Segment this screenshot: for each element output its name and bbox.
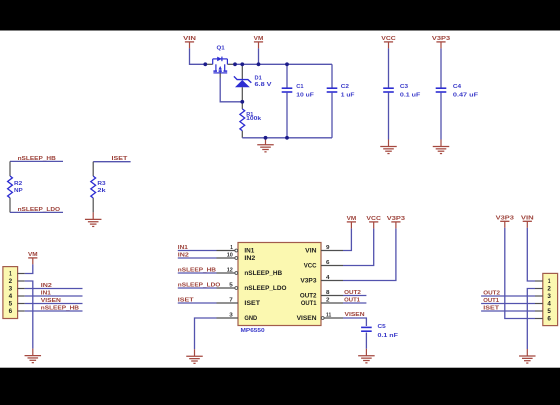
J1 pin 1 stub	[9, 271, 25, 278]
capacitor C1 body	[282, 84, 315, 99]
svg-text:OUT2: OUT2	[300, 293, 317, 300]
svg-text:VM: VM	[254, 36, 264, 42]
pin 5 nSLEEP_LDO (left)	[217, 283, 287, 293]
wire VM stub to rail	[258, 48, 260, 64]
wire nSLEEP_HB (R2)	[10, 160, 63, 162]
power port VM (left connector)	[28, 252, 38, 264]
transistor Q1 (P-MOSFET reverse protection)	[205, 45, 235, 77]
junction	[240, 62, 244, 66]
pin 11 VISEN (right)	[297, 313, 343, 323]
wire VCC to C3	[388, 48, 390, 87]
capacitor C2 body	[327, 84, 355, 99]
pin 2 OUT1 (right)	[301, 298, 343, 308]
wire Q1 gate to D1 node	[220, 78, 242, 102]
top rail wire	[235, 63, 332, 65]
connector J2 (right 6-pin header)	[543, 273, 558, 325]
wire C5 to ground	[365, 333, 367, 349]
ground (C5)	[358, 349, 375, 363]
pin 6 VCC (right)	[304, 260, 343, 270]
ground (J1)	[25, 349, 42, 363]
svg-text:2k: 2k	[97, 188, 106, 194]
ground (R3)	[85, 212, 102, 226]
J1 pin 2 stub	[9, 278, 25, 285]
resistor R3 2k	[91, 162, 107, 213]
capacitor C4 0.47uF	[436, 84, 479, 99]
wire C4 to ground	[440, 93, 442, 140]
svg-text:C1: C1	[296, 84, 304, 90]
pin 9 VIN (right)	[305, 245, 343, 255]
junction	[240, 100, 244, 104]
svg-text:VIN: VIN	[183, 36, 196, 42]
svg-text:nSLEEP_HB: nSLEEP_HB	[244, 270, 282, 277]
J2 pin 2 stub	[535, 286, 552, 293]
junction	[203, 62, 207, 66]
pin 12 nSLEEP_HB (left)	[217, 268, 283, 278]
svg-text:V3P3: V3P3	[496, 215, 515, 221]
J1 pin 4 stub	[9, 293, 25, 300]
wire ISET (R3)	[93, 161, 130, 163]
svg-text:R3: R3	[97, 181, 106, 187]
svg-text:12: 12	[227, 268, 234, 274]
svg-text:VIN: VIN	[305, 248, 316, 255]
svg-text:MP6550: MP6550	[241, 328, 266, 334]
junction	[285, 62, 289, 66]
svg-text:11: 11	[326, 313, 332, 319]
wire VCC pin to VCC	[343, 228, 374, 265]
wire VM to J1 pin1	[25, 264, 33, 273]
wire V3P3 to C4	[440, 48, 442, 87]
svg-text:VCC: VCC	[366, 216, 381, 222]
ground (J2)	[519, 349, 536, 363]
junction	[257, 62, 261, 66]
ground (C3)	[380, 140, 397, 154]
power port VCC (top)	[381, 36, 396, 48]
svg-text:V3P3: V3P3	[387, 216, 406, 222]
J1 pin 6 stub	[9, 308, 25, 315]
wire V3P3 pin to V3P3	[343, 228, 396, 280]
pin 10 IN2 (left)	[217, 253, 257, 263]
capacitor C1 10uF	[286, 64, 288, 87]
power port VIN	[183, 36, 196, 48]
wire GND pin to ground	[195, 318, 217, 349]
pin 7 ISET (left)	[217, 298, 261, 308]
ground (main rail)	[257, 138, 274, 152]
svg-text:C3: C3	[400, 84, 409, 90]
pin 8 OUT2 (right)	[300, 290, 343, 300]
svg-text:IN1: IN1	[244, 248, 255, 255]
svg-text:Q1: Q1	[217, 45, 226, 51]
junction	[233, 62, 237, 66]
wire VIN to J2 pin1	[527, 228, 535, 281]
svg-text:VCC: VCC	[381, 36, 396, 42]
J2 pin 6 stub	[535, 316, 552, 323]
svg-text:NP: NP	[14, 188, 23, 194]
power port VM (above IC)	[347, 216, 357, 228]
capacitor C5 0.1nF	[361, 324, 398, 339]
ground (IC GND)	[186, 349, 203, 363]
wire nSLEEP_LDO (R2)	[10, 211, 63, 213]
pin 4 V3P3 (right)	[300, 275, 343, 285]
wire J2 pin2 to ground	[527, 289, 535, 350]
svg-text:VM: VM	[347, 216, 357, 222]
svg-text:0.1 uF: 0.1 uF	[400, 93, 421, 99]
svg-text:nSLEEP_LDO: nSLEEP_LDO	[244, 285, 286, 292]
wire VISEN to C5	[343, 318, 366, 326]
svg-text:VM: VM	[28, 252, 38, 258]
svg-text:C5: C5	[378, 324, 387, 330]
wire V3P3 to J2 pin6	[505, 228, 535, 319]
J1 pin 3 stub	[9, 286, 25, 293]
svg-text:VCC: VCC	[304, 263, 317, 270]
svg-text:IN2: IN2	[244, 255, 256, 262]
resistor R2 NP	[8, 161, 23, 212]
wire J1 pin2 to ground	[25, 281, 33, 349]
svg-text:0.1 nF: 0.1 nF	[378, 333, 399, 339]
power port VCC (above IC)	[366, 216, 381, 228]
resistor R1 100k	[240, 102, 262, 138]
svg-text:R2: R2	[14, 181, 23, 187]
svg-text:V3P3: V3P3	[432, 36, 451, 42]
J2 pin 3 stub	[535, 293, 552, 300]
svg-text:V3P3: V3P3	[300, 278, 317, 285]
svg-text:C4: C4	[453, 84, 462, 90]
wire VIN pin to VM	[343, 228, 351, 250]
svg-text:D1: D1	[255, 76, 263, 82]
power port V3P3 (above IC)	[387, 216, 406, 228]
ground (C4)	[433, 140, 450, 154]
power port V3P3 (top)	[432, 36, 451, 48]
junction	[285, 136, 289, 140]
diode D1 zener 6.8V	[234, 64, 272, 102]
power port V3P3 (right)	[496, 215, 515, 227]
svg-text:C2: C2	[341, 84, 350, 90]
svg-text:VIN: VIN	[521, 215, 534, 221]
svg-text:GND: GND	[244, 315, 257, 322]
svg-text:10 uF: 10 uF	[296, 93, 314, 99]
svg-text:ISET: ISET	[244, 300, 260, 307]
svg-text:1 uF: 1 uF	[341, 93, 355, 99]
J2 pin 4 stub	[535, 301, 552, 308]
svg-text:VISEN: VISEN	[297, 315, 317, 322]
wire C3 to ground	[388, 93, 390, 140]
svg-text:100k: 100k	[246, 116, 262, 122]
svg-text:10: 10	[227, 253, 234, 259]
svg-text:OUT1: OUT1	[301, 300, 317, 307]
svg-text:6.8 V: 6.8 V	[255, 82, 272, 88]
capacitor C3 0.1uF	[383, 84, 421, 99]
junction	[264, 136, 268, 140]
power port VIN (right)	[521, 215, 534, 227]
svg-text:0.47 uF: 0.47 uF	[453, 93, 479, 99]
J2 pin 1 stub	[535, 278, 551, 285]
power port VM (top)	[254, 36, 264, 48]
svg-text:VISEN: VISEN	[345, 312, 365, 318]
pin 3 GND (left)	[217, 313, 258, 323]
capacitor C2 1uF	[331, 64, 333, 87]
connector J1 (left 6-pin header)	[3, 267, 18, 319]
J1 pin 5 stub	[9, 301, 25, 308]
wire VIN down to rail	[190, 48, 206, 64]
op-amp U1 MP6550 driver IC body	[238, 243, 321, 326]
J2 pin 5 stub	[535, 308, 552, 315]
bottom rail wire	[242, 137, 332, 139]
pin 1 IN1 (left)	[217, 245, 255, 255]
